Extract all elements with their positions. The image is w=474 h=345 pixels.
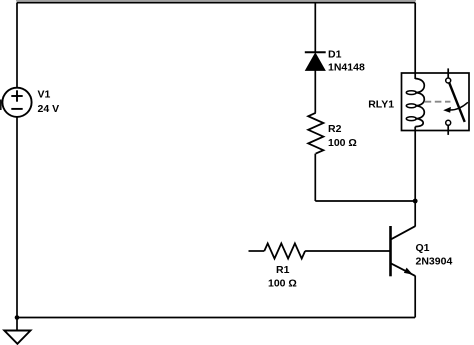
- relay RLY1 switch common stub top: [447, 68, 449, 78]
- voltage source V1: [2, 88, 31, 117]
- label R1 100ohm: [268, 264, 297, 289]
- relay RLY1 switch blade: [449, 83, 464, 122]
- wire top rail corner down to relay: [414, 3, 416, 80]
- svg-text:24 V: 24 V: [38, 103, 60, 115]
- resistor R2: [308, 113, 323, 154]
- svg-text:V1: V1: [38, 89, 51, 101]
- wire collector node to Q1: [414, 201, 416, 227]
- label D1 1N4148: [328, 48, 365, 73]
- relay RLY1 switch contact circle top: [446, 78, 451, 83]
- wire horizontal R2 to collector node: [315, 200, 415, 202]
- diode D1: [305, 52, 326, 70]
- svg-text:R2: R2: [328, 123, 342, 135]
- wire base open stub: [249, 250, 265, 252]
- svg-text:Q1: Q1: [416, 242, 430, 254]
- wire R1 to base: [305, 250, 389, 252]
- relay RLY1 actuation dashed link: [425, 101, 451, 103]
- wire emitter down to bottom rail: [414, 276, 416, 318]
- label Q1 2N3904: [416, 242, 453, 268]
- wire D1 branch from top rail: [314, 3, 316, 53]
- wire R2 bottom down: [314, 154, 316, 201]
- svg-text:2N3904: 2N3904: [416, 255, 453, 267]
- svg-text:D1: D1: [328, 48, 342, 60]
- wire left rail upper (top rail down to V1 top): [16, 3, 18, 88]
- wire bottom rail: [17, 317, 415, 319]
- wire D1 to R2: [314, 70, 316, 112]
- svg-text:100 Ω: 100 Ω: [328, 137, 357, 149]
- node collector junction dot: [413, 199, 418, 204]
- wire top rail from V1 to relay corner: [16, 0, 416, 3]
- relay RLY1 switch stub bottom: [447, 125, 449, 135]
- svg-text:100 Ω: 100 Ω: [268, 278, 297, 290]
- svg-text:R1: R1: [276, 264, 290, 276]
- label V1 value: [38, 89, 60, 116]
- relay RLY1 box: [402, 73, 470, 131]
- ground: [4, 318, 30, 344]
- svg-text:1N4148: 1N4148: [328, 62, 365, 74]
- node ground junction dot: [15, 315, 20, 320]
- relay RLY1 arrow: [443, 102, 468, 112]
- relay RLY1 switch contact circle bottom: [446, 120, 451, 125]
- relay RLY1 coil: [406, 79, 424, 127]
- wire relay coil to collector node: [414, 127, 416, 201]
- svg-text:RLY1: RLY1: [368, 99, 394, 111]
- label R2 100ohm: [328, 123, 357, 149]
- transistor Q1: [391, 226, 416, 276]
- wire left rail lower (V1 bottom to ground node): [16, 117, 18, 318]
- label RLY1: [368, 99, 394, 111]
- resistor R1: [264, 243, 305, 258]
- edge artifact left of V1: [0, 100, 2, 111]
